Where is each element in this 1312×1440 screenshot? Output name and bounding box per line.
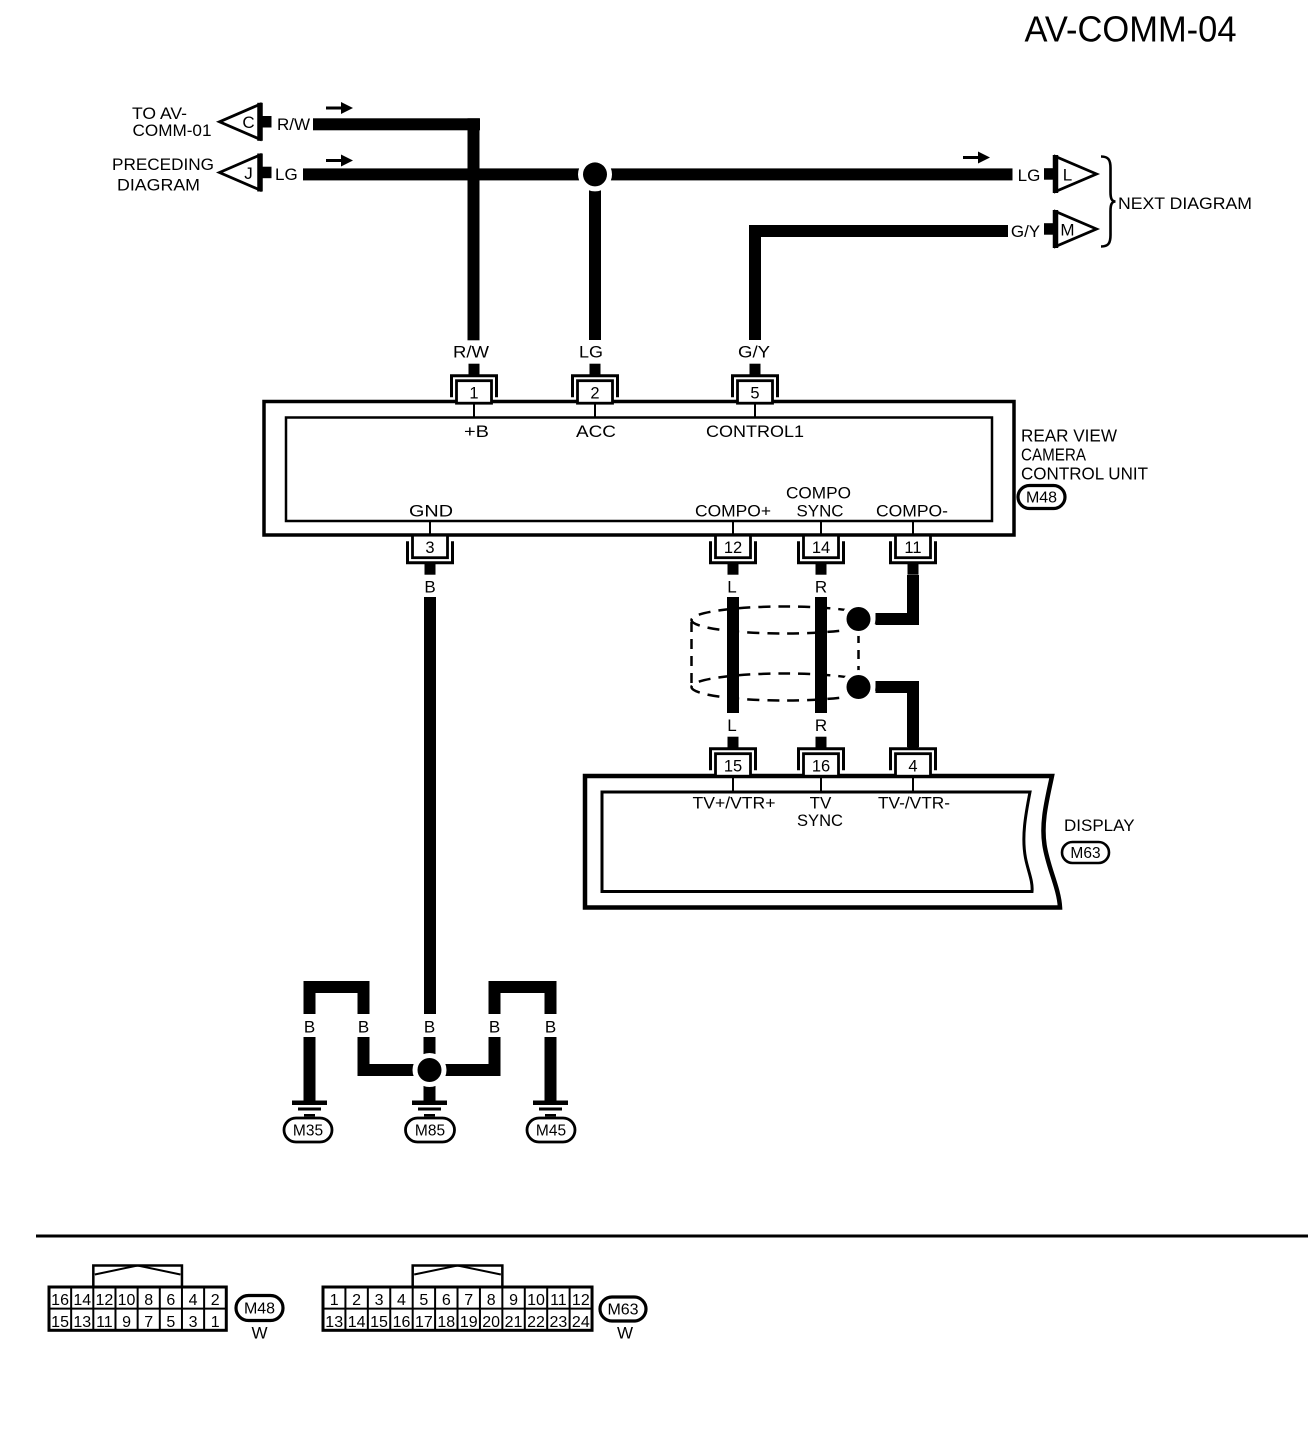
svg-text:R: R xyxy=(815,716,827,735)
svg-text:AV-COMM-04: AV-COMM-04 xyxy=(1025,9,1237,50)
svg-text:G/Y: G/Y xyxy=(738,343,770,362)
svg-text:19: 19 xyxy=(460,1314,478,1331)
svg-text:CAMERA: CAMERA xyxy=(1021,445,1086,465)
svg-text:NEXT DIAGRAM: NEXT DIAGRAM xyxy=(1118,194,1252,213)
svg-text:16: 16 xyxy=(812,758,830,776)
svg-text:TV-/VTR-: TV-/VTR- xyxy=(878,794,950,813)
svg-text:G/Y: G/Y xyxy=(1011,222,1040,241)
svg-text:8: 8 xyxy=(144,1292,153,1309)
svg-text:B: B xyxy=(424,578,435,597)
svg-text:B: B xyxy=(304,1018,315,1037)
svg-text:17: 17 xyxy=(415,1314,433,1331)
svg-text:14: 14 xyxy=(812,539,830,557)
svg-text:6: 6 xyxy=(442,1292,451,1309)
svg-text:2: 2 xyxy=(590,385,599,403)
svg-text:R/W: R/W xyxy=(277,115,310,134)
svg-text:21: 21 xyxy=(505,1314,523,1331)
svg-text:M63: M63 xyxy=(1070,845,1100,862)
svg-text:J: J xyxy=(244,164,253,183)
svg-text:L: L xyxy=(1063,165,1072,184)
svg-text:13: 13 xyxy=(73,1314,91,1331)
svg-text:R: R xyxy=(815,578,827,597)
svg-text:REAR VIEW: REAR VIEW xyxy=(1021,426,1117,446)
svg-text:14: 14 xyxy=(73,1292,91,1309)
svg-text:5: 5 xyxy=(750,385,759,403)
svg-text:23: 23 xyxy=(550,1314,568,1331)
svg-text:COMPO+: COMPO+ xyxy=(695,502,771,521)
svg-text:LG: LG xyxy=(275,165,298,184)
svg-text:24: 24 xyxy=(572,1314,590,1331)
svg-text:11: 11 xyxy=(96,1314,113,1331)
svg-text:B: B xyxy=(358,1018,369,1037)
svg-text:18: 18 xyxy=(437,1314,455,1331)
svg-text:4: 4 xyxy=(189,1292,198,1309)
svg-text:L: L xyxy=(727,716,736,735)
svg-text:2: 2 xyxy=(211,1292,220,1309)
svg-text:CONTROL1: CONTROL1 xyxy=(706,422,804,441)
svg-text:20: 20 xyxy=(482,1314,500,1331)
svg-text:5: 5 xyxy=(419,1292,428,1309)
svg-text:M48: M48 xyxy=(1026,490,1057,507)
svg-text:9: 9 xyxy=(122,1314,131,1331)
svg-text:COMPO-: COMPO- xyxy=(876,502,948,521)
svg-text:16: 16 xyxy=(393,1314,411,1331)
svg-text:SYNC: SYNC xyxy=(797,502,844,521)
svg-text:DISPLAY: DISPLAY xyxy=(1064,816,1135,835)
svg-text:15: 15 xyxy=(370,1314,388,1331)
svg-text:16: 16 xyxy=(51,1292,69,1309)
svg-text:7: 7 xyxy=(464,1292,473,1309)
svg-text:B: B xyxy=(424,1018,435,1037)
svg-text:C: C xyxy=(242,113,254,132)
svg-text:B: B xyxy=(545,1018,556,1037)
svg-text:6: 6 xyxy=(166,1292,175,1309)
svg-text:M48: M48 xyxy=(244,1301,275,1318)
svg-text:11: 11 xyxy=(550,1292,567,1309)
svg-text:M45: M45 xyxy=(536,1123,566,1140)
svg-text:COMM-01: COMM-01 xyxy=(133,121,212,140)
svg-text:SYNC: SYNC xyxy=(797,811,843,830)
svg-text:W: W xyxy=(617,1324,633,1343)
svg-text:M85: M85 xyxy=(415,1123,445,1140)
svg-text:TV+/VTR+: TV+/VTR+ xyxy=(693,794,776,813)
svg-text:11: 11 xyxy=(904,539,921,557)
svg-text:10: 10 xyxy=(118,1292,136,1309)
svg-text:ACC: ACC xyxy=(576,422,616,441)
svg-text:12: 12 xyxy=(724,539,742,557)
svg-text:B: B xyxy=(489,1018,500,1037)
svg-text:3: 3 xyxy=(375,1292,384,1309)
svg-text:LG: LG xyxy=(1018,166,1041,185)
svg-text:TV: TV xyxy=(810,794,832,813)
svg-text:3: 3 xyxy=(189,1314,198,1331)
svg-text:DIAGRAM: DIAGRAM xyxy=(117,176,200,195)
svg-text:8: 8 xyxy=(487,1292,496,1309)
svg-text:1: 1 xyxy=(469,385,478,403)
svg-text:13: 13 xyxy=(325,1314,343,1331)
svg-text:GND: GND xyxy=(409,502,453,521)
svg-text:3: 3 xyxy=(425,539,434,557)
svg-text:L: L xyxy=(727,578,736,597)
svg-text:22: 22 xyxy=(527,1314,545,1331)
svg-text:10: 10 xyxy=(527,1292,545,1309)
svg-text:14: 14 xyxy=(348,1314,366,1331)
svg-text:1: 1 xyxy=(211,1314,220,1331)
svg-text:12: 12 xyxy=(96,1292,114,1309)
svg-text:CONTROL UNIT: CONTROL UNIT xyxy=(1021,464,1148,484)
svg-text:M63: M63 xyxy=(607,1302,638,1319)
svg-text:12: 12 xyxy=(572,1292,590,1309)
svg-text:R/W: R/W xyxy=(453,343,489,362)
svg-text:W: W xyxy=(251,1324,267,1343)
svg-text:+B: +B xyxy=(464,422,489,441)
svg-text:COMPO: COMPO xyxy=(786,484,851,503)
svg-text:9: 9 xyxy=(509,1292,518,1309)
svg-text:5: 5 xyxy=(166,1314,175,1331)
svg-text:15: 15 xyxy=(724,758,742,776)
svg-text:PRECEDING: PRECEDING xyxy=(112,155,214,174)
svg-text:4: 4 xyxy=(908,758,917,776)
svg-text:7: 7 xyxy=(144,1314,153,1331)
svg-text:4: 4 xyxy=(397,1292,406,1309)
svg-text:LG: LG xyxy=(579,343,603,362)
svg-text:M35: M35 xyxy=(293,1123,323,1140)
svg-text:15: 15 xyxy=(51,1314,69,1331)
svg-text:2: 2 xyxy=(352,1292,361,1309)
svg-text:1: 1 xyxy=(330,1292,339,1309)
svg-text:M: M xyxy=(1060,220,1074,239)
